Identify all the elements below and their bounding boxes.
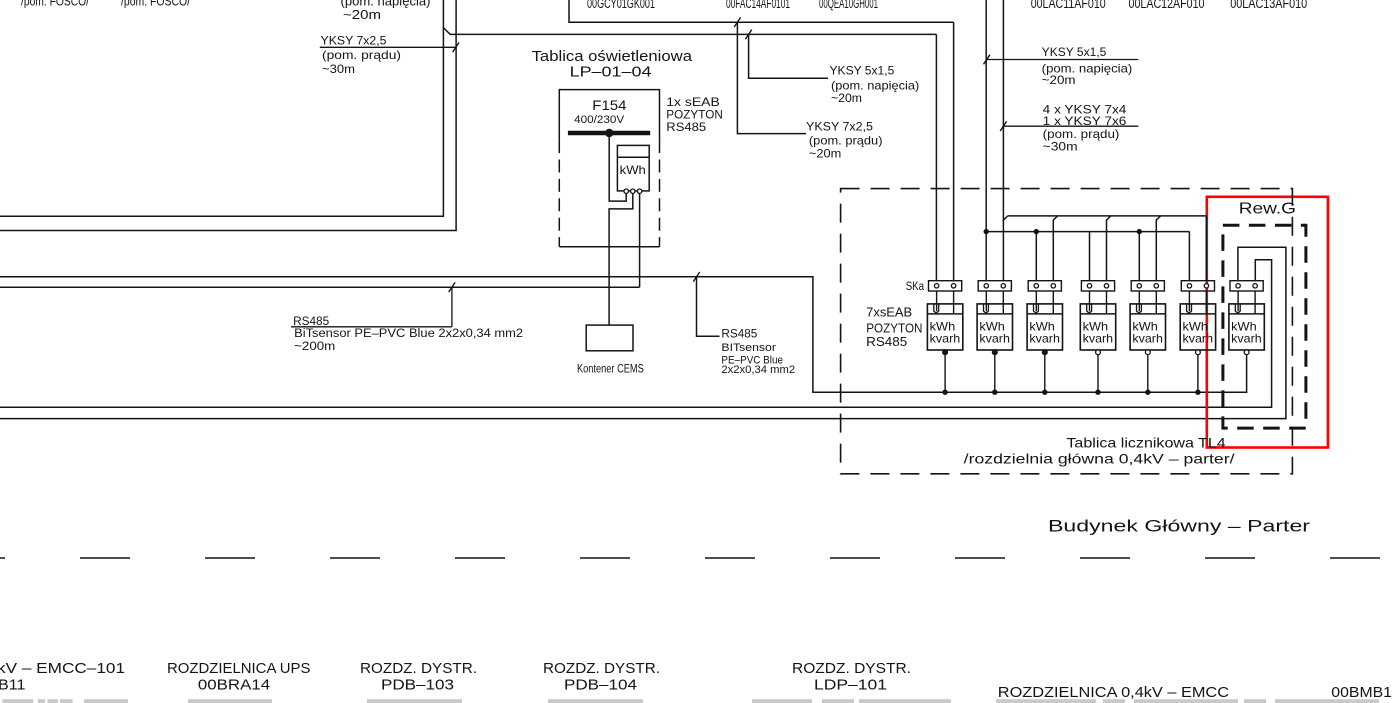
cable label leader YKSY 7x2,5 (left) — [320, 46, 456, 48]
svg-text:400/230V: 400/230V — [574, 114, 625, 126]
svg-text:kV – EMCC–101: kV – EMCC–101 — [0, 660, 125, 677]
svg-text:~20m: ~20m — [831, 91, 862, 105]
wire: busbar to meter terminal 1 — [609, 133, 626, 201]
svg-text:Kontener CEMS: Kontener CEMS — [577, 364, 644, 376]
svg-text:(pom. prądu): (pom. prądu) — [322, 48, 401, 62]
cable label leader RS485 BITsensor (right) — [697, 277, 720, 336]
wire: meter U1 to RS485 bus — [944, 355, 946, 393]
svg-text:RS485: RS485 — [666, 120, 706, 134]
wire: block to meter 5 terminals — [1138, 291, 1140, 311]
cable label leader RS485 BiTsensor (left) — [291, 326, 452, 328]
wire: meter terminal 3 down to RS485 bus stub — [639, 193, 641, 287]
svg-text:SKa: SKa — [906, 281, 925, 293]
meter U6 bottom terminal — [1196, 350, 1201, 355]
svg-text:00LAC13AF010: 00LAC13AF010 — [1230, 0, 1307, 11]
wire: feeder to meter1 right terminal — [953, 22, 955, 281]
energy meter U7 box kWh/kvarh — [1229, 304, 1264, 350]
svg-text:B11: B11 — [0, 676, 26, 693]
energy meter U6 box kWh/kvarh — [1180, 304, 1215, 350]
node: bus junction meter 4 — [1095, 390, 1100, 395]
svg-text:F154: F154 — [592, 97, 626, 113]
svg-text:Rew.G: Rew.G — [1239, 201, 1296, 218]
svg-text:kWh: kWh — [620, 163, 646, 177]
svg-text:00FAC14AF0101: 00FAC14AF0101 — [726, 0, 790, 11]
svg-text:kvarh: kvarh — [979, 332, 1010, 346]
node: bus junction meter 6 — [1195, 390, 1200, 395]
wire: vertical cable run to corner, left box A — [0, 0, 443, 216]
cable label leader 4x YKSY 7x4 / 1x YKSY 7x6 (right) — [1003, 125, 1138, 127]
wire: meter U4 to RS485 bus — [1097, 355, 1099, 393]
arrow tick (right leader 2) — [1000, 121, 1006, 131]
wire: block to meter 1 terminals — [936, 291, 938, 311]
svg-text:~20m: ~20m — [343, 7, 381, 22]
terminal block SKa meter 7 — [1230, 281, 1263, 291]
red highlight rectangle Rew.G — [1207, 197, 1328, 448]
svg-text:~200m: ~200m — [294, 339, 335, 353]
svg-text:ROZDZIELNICA UPS: ROZDZIELNICA UPS — [167, 660, 310, 677]
terminal block SKa meter 4 — [1081, 281, 1114, 291]
svg-text:RS485: RS485 — [293, 314, 329, 328]
wire: block to meter 7 terminals — [1237, 291, 1239, 311]
wire: block to meter 4 terminals — [1089, 291, 1091, 311]
svg-text:ROZDZ. DYSTR.: ROZDZ. DYSTR. — [543, 660, 660, 677]
terminal block SKa meter 1 — [929, 281, 962, 291]
wire: cable run to meter group R (current) — [1003, 0, 1007, 220]
voltage rail (lower) — [986, 231, 1189, 233]
svg-text:POZYTON: POZYTON — [866, 322, 922, 336]
energy meter U1 box kWh/kvarh — [927, 304, 962, 350]
svg-text:~30m: ~30m — [322, 62, 355, 76]
meter U7 bottom terminal — [1244, 350, 1249, 355]
arrow tick on RS485 bus 2 — [449, 282, 455, 292]
svg-text:~20m: ~20m — [809, 147, 841, 161]
node: bus junction meter 3 — [1042, 390, 1047, 395]
svg-text:PDB–104: PDB–104 — [564, 676, 637, 693]
arrow tick (right leader 1) — [984, 55, 990, 65]
node: bus junction meter 5 — [1145, 390, 1150, 395]
arrow tick on feeder wire (middle label A) — [734, 17, 740, 27]
RS485 bus line 1 (to meter bus) — [0, 277, 1247, 392]
terminal block SKa meter 2 — [978, 281, 1011, 291]
energy meter U3 box kWh/kvarh — [1027, 304, 1062, 350]
svg-text:kvarh: kvarh — [1231, 332, 1262, 346]
svg-text:00LAC11AF010: 00LAC11AF010 — [1031, 0, 1106, 11]
wire: block to meter 2 terminals — [985, 291, 987, 311]
RS485 return line upper (from Rew.G meter) — [0, 260, 1272, 408]
cable label leader YKSY 7x2,5 (middle), attaches to feeder y=22 — [737, 22, 806, 133]
RS485 bus line 2 (to LP meter) — [0, 286, 640, 288]
wire: vertical cable run to corner, left box B — [0, 0, 456, 231]
svg-text:ROZDZIELNICA 0,4kV – EMCC: ROZDZIELNICA 0,4kV – EMCC — [998, 684, 1229, 701]
svg-text:kvarh: kvarh — [1183, 332, 1214, 346]
svg-text:1 x YKSY 7x6: 1 x YKSY 7x6 — [1043, 114, 1127, 128]
wire: feeder to meter1 left terminal — [935, 34, 937, 280]
energy meter U2 box kWh/kvarh — [977, 304, 1012, 350]
wire: meter terminal 2 to Kontener CEMS — [609, 193, 633, 325]
svg-text:ROZDZ. DYSTR.: ROZDZ. DYSTR. — [360, 660, 477, 677]
svg-text:LP–01–04: LP–01–04 — [570, 63, 652, 80]
wire: meter U5 to RS485 bus — [1147, 355, 1149, 393]
building boundary dashed line — [0, 557, 1393, 559]
svg-text:/pom. FOSCO/: /pom. FOSCO/ — [21, 0, 89, 9]
svg-text:~20m: ~20m — [1042, 73, 1076, 87]
svg-text:00GCY01GK001: 00GCY01GK001 — [587, 0, 655, 11]
wire: block to meter 6 terminals — [1188, 291, 1190, 311]
svg-text:00QEA10GH001: 00QEA10GH001 — [819, 0, 878, 11]
RS485 return line lower (from Rew.G meter) — [0, 247, 1286, 418]
current rail (top) with chamfer drops — [1008, 215, 1207, 217]
svg-text:2x2x0,34 mm2: 2x2x0,34 mm2 — [721, 364, 795, 376]
meter U5 bottom terminal — [1145, 350, 1150, 355]
svg-text:RS485: RS485 — [866, 335, 907, 349]
svg-text:/pom. FOSCO/: /pom. FOSCO/ — [121, 0, 190, 9]
wire: meter U2 to RS485 bus — [994, 355, 996, 393]
svg-text:LDP–101: LDP–101 — [814, 676, 887, 693]
svg-text:YKSY 7x2,5: YKSY 7x2,5 — [806, 119, 873, 133]
meter U1 bottom terminal — [943, 350, 948, 355]
svg-text:kvarh: kvarh — [1029, 332, 1060, 346]
terminal block SKa meter 3 — [1028, 281, 1061, 291]
meter U2 bottom terminal — [992, 350, 997, 355]
wire: meter U3 to RS485 bus — [1044, 355, 1046, 393]
Kontener CEMS box — [586, 325, 633, 351]
svg-text:7xsEAB: 7xsEAB — [866, 306, 912, 320]
terminal block SKa meter 6 — [1181, 281, 1214, 291]
busbar 400/230V (thick) — [568, 131, 650, 136]
dashed enclosure Tablica licznikowa TL4 — [841, 189, 1293, 474]
svg-text:/rozdzielnia główna 0,4kV – pa: /rozdzielnia główna 0,4kV – parter/ — [964, 450, 1235, 466]
energy meter U4 box kWh/kvarh — [1080, 304, 1115, 350]
cable label leader YKSY 5x1,5 (right) — [987, 59, 1139, 61]
svg-text:kvarh: kvarh — [930, 332, 961, 346]
cut-off switchgear outlines at bottom edge (gray) — [2, 699, 33, 703]
thick dashed enclosure (Rew.G inner) — [1223, 225, 1306, 428]
arrow tick on cable run (left label) — [453, 43, 459, 53]
svg-text:kvarh: kvarh — [1083, 332, 1114, 346]
node: junction voltage rail — [984, 229, 989, 234]
arrow tick on RS485 bus 1 — [693, 272, 699, 282]
svg-text:kvarh: kvarh — [1132, 332, 1163, 346]
energy meter kWh (LP panel) box — [617, 145, 649, 191]
meter U3 bottom terminal — [1042, 350, 1047, 355]
wire: feeder at y=34 with elbow from vertical run — [443, 28, 936, 35]
wire: block to meter 3 terminals — [1035, 291, 1037, 311]
svg-text:YKSY 5x1,5: YKSY 5x1,5 — [1042, 45, 1107, 59]
svg-text:YKSY 7x2,5: YKSY 7x2,5 — [321, 34, 387, 48]
wire: cable run to meter group L (voltage) — [985, 0, 987, 281]
svg-text:PDB–103: PDB–103 — [381, 676, 454, 693]
arrow tick on feeder wire (middle label B) — [745, 30, 751, 40]
node: voltage rail junction m3 — [1034, 229, 1039, 234]
node: bus junction meter 2 — [992, 390, 997, 395]
cable label leader YKSY 5x1,5 (middle), attaches to feeder y=34 — [749, 34, 828, 78]
svg-text:BITsensor: BITsensor — [721, 342, 776, 354]
svg-text:00LAC12AF010: 00LAC12AF010 — [1129, 0, 1205, 11]
svg-text:RS485: RS485 — [721, 328, 757, 340]
node: busbar tap junction — [605, 129, 613, 137]
terminal block SKa meter 5 — [1131, 281, 1164, 291]
svg-text:Tablica licznikowa TL4: Tablica licznikowa TL4 — [1066, 434, 1226, 450]
node: voltage rail junction m5 — [1137, 229, 1142, 234]
svg-text:YKSY 5x1,5: YKSY 5x1,5 — [830, 63, 895, 77]
meter bottom terminals (3 circles) — [624, 189, 628, 193]
feeder box outline (top, partially cut) — [569, 0, 954, 22]
wire: meter U6 to RS485 bus — [1197, 355, 1199, 393]
svg-text:ROZDZ. DYSTR.: ROZDZ. DYSTR. — [792, 660, 911, 677]
energy meter U5 box kWh/kvarh — [1130, 304, 1165, 350]
svg-text:(pom. prądu): (pom. prądu) — [809, 134, 883, 148]
svg-text:00BRA14: 00BRA14 — [198, 676, 270, 693]
meter U4 bottom terminal — [1096, 350, 1101, 355]
node: bus junction meter 1 — [942, 390, 947, 395]
svg-text:~30m: ~30m — [1043, 140, 1078, 154]
svg-text:Budynek Główny – Parter: Budynek Główny – Parter — [1048, 516, 1310, 535]
svg-text:00BMB1: 00BMB1 — [1331, 684, 1392, 701]
panel LP-01-04 dashed enclosure — [559, 89, 659, 91]
